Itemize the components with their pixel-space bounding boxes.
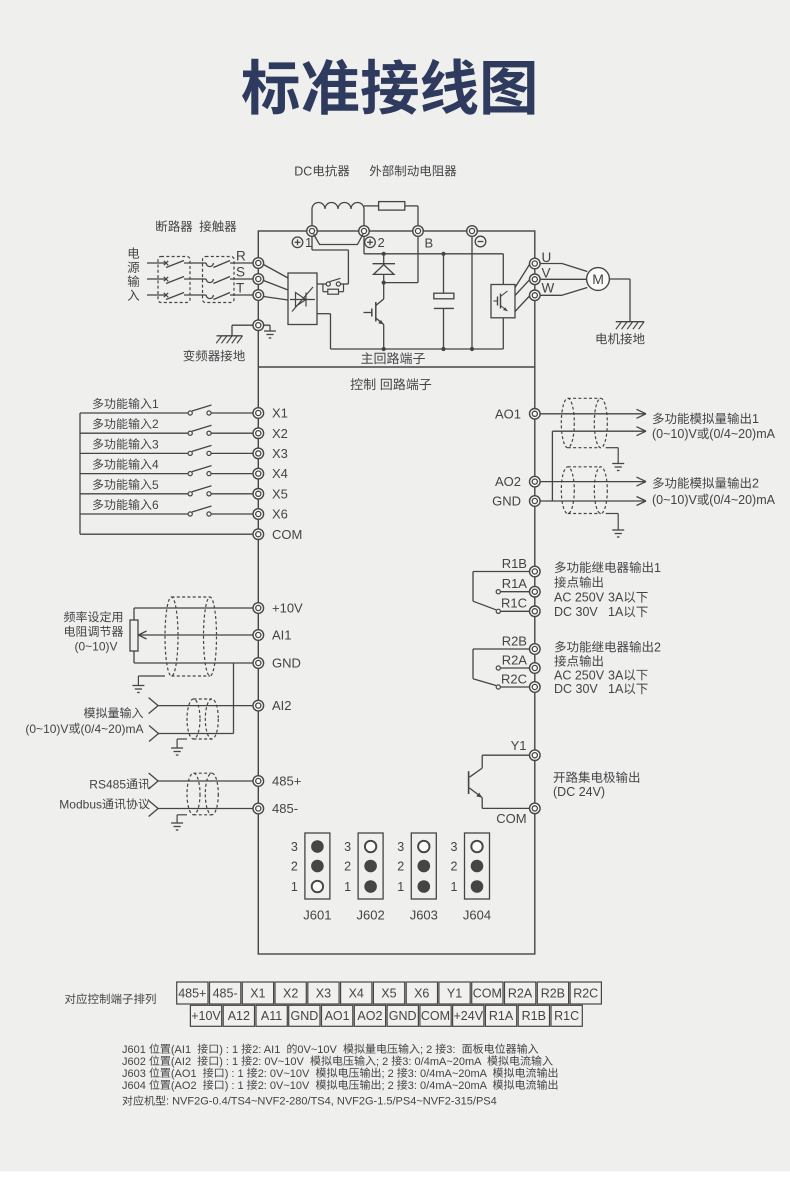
label 频率设定用 电阻调节器 (0~10)V [64, 611, 123, 653]
terminal 485- [253, 803, 264, 814]
svg-text:X5: X5 [381, 986, 396, 1000]
label GND [272, 656, 301, 671]
svg-text:R1B: R1B [502, 556, 527, 571]
node bus junctions [382, 347, 475, 351]
label 多功能输入1 [93, 397, 159, 411]
terminal COM [253, 529, 264, 540]
terminal R1A [530, 586, 541, 597]
svg-text:6: 6 [152, 498, 159, 512]
terminal X3 [253, 448, 264, 459]
svg-text:R1A: R1A [502, 576, 528, 591]
ground shield analog-set [132, 676, 165, 693]
label 多功能输入3 [93, 437, 159, 451]
jumper J601 [291, 833, 332, 923]
svg-text:) : 1: ) : 1 [219, 1056, 238, 1068]
svg-text:J601: J601 [122, 1044, 146, 1056]
terminal X4 [253, 468, 264, 479]
svg-text:1A: 1A [608, 682, 624, 696]
svg-text:3: 3 [397, 840, 404, 854]
label 多功能输入6 [93, 498, 159, 512]
svg-text:2: 2 [344, 859, 351, 873]
terminal X1 [253, 408, 264, 419]
svg-text:X4: X4 [349, 986, 364, 1000]
label AI1 [272, 628, 292, 643]
capacitor DC bus [434, 254, 454, 349]
svg-text:) : 1: ) : 1 [225, 1068, 244, 1080]
wire - drop [471, 236, 473, 349]
svg-text:X2: X2 [283, 986, 298, 1000]
svg-text:2: AI1: 2: AI1 [252, 1044, 280, 1056]
terminal R [253, 258, 264, 269]
terminal R1C [530, 606, 541, 617]
label B [425, 236, 434, 251]
svg-text:(AI2: (AI2 [171, 1056, 191, 1068]
wire +10V row [134, 607, 253, 609]
svg-text:COM: COM [421, 1009, 450, 1023]
svg-text:A11: A11 [261, 1009, 282, 1023]
ground motor hatched [616, 322, 644, 330]
wire input row X6 [80, 513, 253, 515]
terminal +1 (DC bus) [307, 226, 318, 237]
svg-text:X3: X3 [272, 446, 288, 461]
svg-text:2: 2 [451, 859, 458, 873]
wire input phase R [147, 262, 253, 264]
label GND [492, 494, 521, 509]
label W [542, 281, 555, 296]
label R1A [502, 576, 528, 591]
note line 2 [122, 1055, 553, 1067]
svg-text:Modbus: Modbus [59, 797, 102, 811]
svg-text:AO1: AO1 [495, 406, 521, 421]
wire B drop [384, 236, 418, 283]
svg-text:1: 1 [654, 561, 661, 575]
svg-text:AC 250V: AC 250V [554, 668, 605, 682]
terminal AO1 [530, 409, 541, 420]
svg-text:AC 250V: AC 250V [554, 591, 605, 605]
switch X3 [188, 445, 211, 455]
svg-text:U: U [542, 250, 552, 265]
shield RS485 cable [187, 773, 218, 815]
terminal V [530, 274, 541, 285]
svg-text:(0/4~20)mA: (0/4~20)mA [709, 427, 775, 441]
terminal X6 [253, 509, 264, 520]
svg-text:(0/4~20)mA: (0/4~20)mA [81, 722, 144, 736]
label R1B [502, 556, 527, 571]
svg-text:AI1: AI1 [272, 628, 292, 643]
table terminal row 1 [177, 982, 602, 1004]
wire AO2 out [540, 477, 646, 486]
label 主回路端子 [361, 352, 425, 364]
label 变频器接地 [183, 350, 244, 362]
label AI2 [272, 698, 292, 713]
terminal AO2 [530, 476, 541, 487]
breaker pole R [164, 261, 184, 268]
wire reactor risers [312, 209, 364, 227]
terminal 485+ [253, 776, 264, 787]
wire input row X2 [80, 432, 253, 434]
svg-text:; 2: ; 2 [382, 1080, 394, 1092]
label X6 [272, 507, 288, 522]
svg-text:DC: DC [294, 164, 312, 178]
svg-text:2: 0V~10V: 2: 0V~10V [258, 1068, 310, 1080]
wire multi-input bus [79, 413, 81, 534]
svg-text:J601: J601 [303, 908, 331, 923]
label 控制 回路端子 [351, 378, 432, 390]
transistor inverter IGBT module [491, 285, 515, 318]
svg-text:1: 1 [752, 412, 759, 426]
contactor pole R [206, 261, 230, 268]
resistor braking (external) [379, 202, 405, 211]
svg-text:R2A: R2A [508, 986, 533, 1000]
terminal +2 (DC bus) [359, 226, 370, 237]
wire +2 drop and DC+ bus [364, 236, 503, 285]
svg-text:W: W [542, 281, 555, 296]
svg-text:(0~10)V: (0~10)V [75, 639, 118, 653]
label ⊕1 [292, 235, 312, 250]
wire AI2 return to GND [149, 663, 234, 742]
label 多功能输入4 [93, 458, 159, 472]
svg-text:3: 0/4mA~20mA: 3: 0/4mA~20mA [408, 1068, 488, 1080]
svg-text:S: S [236, 264, 245, 279]
label 多功能继电器输出2 block [554, 640, 661, 696]
wire rectifier bottom to bus [317, 314, 331, 349]
terminal AI1 [253, 630, 264, 641]
wire AI2 row [149, 698, 253, 714]
main/control divider line [258, 366, 535, 368]
label 多功能输入2 [93, 417, 159, 431]
label X2 [272, 426, 288, 441]
label 电机接地 [597, 333, 645, 345]
svg-text:0V~10V: 0V~10V [297, 1044, 337, 1056]
svg-text:X1: X1 [250, 986, 265, 1000]
shield AI2 cable [187, 699, 218, 739]
svg-text:X5: X5 [272, 486, 288, 501]
svg-text:3: 3 [344, 840, 351, 854]
svg-text:J602: J602 [357, 908, 385, 923]
note line 4 [122, 1079, 557, 1091]
label 接触器 [200, 220, 237, 232]
ground inverter hatched [216, 336, 242, 344]
svg-text:+24V: +24V [454, 1009, 484, 1023]
jumper J602 [344, 833, 385, 923]
label 485+ [272, 774, 301, 789]
svg-text:J604: J604 [122, 1080, 146, 1092]
wire relay R1B common [473, 572, 530, 610]
wire +1 +2 jumper link [314, 234, 364, 245]
label 外部制动电阻器 [370, 165, 457, 177]
wire AO1 out [540, 409, 646, 418]
terminal - (DC bus) [467, 226, 478, 237]
svg-text:1A: 1A [608, 605, 624, 619]
svg-text:(0~10)V: (0~10)V [25, 722, 68, 736]
svg-text:R1A: R1A [489, 1009, 514, 1023]
svg-text:GND: GND [492, 494, 521, 509]
svg-text:(AO1: (AO1 [171, 1068, 197, 1080]
label COM [272, 527, 302, 542]
wire inverter outputs [515, 265, 530, 312]
svg-text:X1: X1 [272, 406, 288, 421]
label R2A [502, 652, 528, 667]
node diode-top junction [382, 252, 386, 256]
note line 5 [122, 1095, 496, 1107]
label RS485通讯 [89, 777, 149, 791]
svg-text:2: 2 [152, 417, 159, 431]
shield AO2 cable [561, 467, 607, 514]
svg-text:2: 2 [397, 859, 404, 873]
svg-text:; 2: ; 2 [376, 1056, 388, 1068]
label DC电抗器 [294, 164, 349, 178]
terminal AI2 [253, 700, 264, 711]
transistor Y1 open-collector [469, 755, 530, 808]
svg-text:485+: 485+ [272, 774, 301, 789]
label (0~10)V或(0/4~20)mA [652, 493, 776, 507]
wire input row X4 [80, 473, 253, 475]
label AO2 [495, 474, 521, 489]
svg-text:2: 2 [654, 640, 661, 654]
potentiometer frequency-set [130, 608, 138, 663]
svg-text:1: 1 [291, 880, 298, 894]
label V [542, 266, 551, 281]
inverter enclosure box [258, 231, 535, 954]
svg-text:+10V: +10V [272, 601, 303, 616]
table terminal row 2 [190, 1005, 582, 1026]
wire U to motor [540, 264, 587, 272]
svg-text:R2B: R2B [541, 986, 565, 1000]
label ⊕2 [365, 235, 385, 250]
terminal PE [253, 320, 264, 331]
note line 3 [122, 1067, 557, 1079]
label (0~10)V或(0/4~20)mA [25, 722, 143, 736]
svg-text:(0~10)V: (0~10)V [652, 493, 697, 507]
svg-text:X6: X6 [272, 507, 288, 522]
label 电源输入 (vertical) [128, 247, 140, 300]
label X5 [272, 486, 288, 501]
terminal X5 [253, 489, 264, 500]
bottom white strip [0, 1172, 790, 1177]
breaker pole T [164, 293, 184, 300]
wire contact to +1 branch [341, 283, 349, 285]
label COM [496, 811, 526, 826]
svg-text:T: T [236, 280, 244, 295]
wire W to motor [540, 288, 587, 296]
wire motor to ground [609, 279, 630, 322]
terminal R2B [530, 644, 541, 655]
svg-text:3:: 3: [446, 1044, 455, 1056]
label R1C [501, 596, 527, 611]
ground shield AO2 [606, 514, 625, 538]
title 标准接线图 [242, 59, 534, 115]
svg-text:J602: J602 [122, 1056, 146, 1068]
ground shield RS485 [171, 815, 187, 830]
label 模拟量输入 [84, 707, 143, 718]
label R [236, 248, 246, 263]
label X1 [272, 406, 288, 421]
svg-text:(0~10)V: (0~10)V [652, 427, 697, 441]
svg-text:3: 3 [152, 437, 159, 451]
jumper J603 [397, 833, 438, 923]
terminal GND (analog out) [530, 496, 541, 507]
svg-text:2: 2 [752, 477, 759, 491]
svg-text:1: 1 [305, 235, 312, 250]
svg-text:R1C: R1C [501, 596, 527, 611]
svg-text:+10V: +10V [191, 1009, 221, 1023]
svg-text:4: 4 [152, 458, 159, 472]
wire R S T to rectifier [264, 265, 289, 301]
rectifier bridge [288, 273, 317, 325]
terminal X2 [253, 428, 264, 439]
label 多功能继电器输出1 block [554, 561, 661, 619]
contactor pole T [206, 293, 230, 300]
relay contact R2A [496, 666, 529, 670]
terminal R2A [530, 663, 541, 674]
wire AO1 return [552, 427, 646, 501]
svg-text:GND: GND [389, 1009, 417, 1023]
switch X1 [188, 405, 211, 415]
svg-text:R2C: R2C [501, 671, 527, 686]
label ⊖ [475, 236, 486, 247]
svg-text:1: 1 [344, 880, 351, 894]
svg-text:(DC 24V): (DC 24V) [553, 785, 605, 799]
wire input row X5 [80, 493, 253, 495]
svg-text:DC 30V: DC 30V [554, 605, 598, 619]
svg-text:COM: COM [473, 986, 502, 1000]
svg-text:J603: J603 [122, 1068, 146, 1080]
terminal S [253, 274, 264, 285]
svg-text:2: 2 [378, 235, 385, 250]
terminal Y1 [530, 750, 541, 761]
svg-text:B: B [425, 236, 434, 251]
ground PE symbol [264, 331, 276, 338]
breaker pole S [164, 277, 184, 284]
svg-text:(AO2: (AO2 [171, 1080, 197, 1092]
shield analog-set cable [165, 597, 217, 676]
svg-text:R2C: R2C [573, 986, 598, 1000]
label 断路器 [156, 220, 192, 232]
label 多功能模拟量输出2 [653, 477, 759, 491]
label X4 [272, 466, 288, 481]
svg-text:A12: A12 [228, 1009, 250, 1023]
label Y1 [511, 738, 527, 753]
svg-text:R: R [236, 248, 246, 263]
svg-text:2: 0V~10V: 2: 0V~10V [252, 1056, 304, 1068]
svg-text:J604: J604 [463, 908, 491, 923]
jumper J604 [451, 833, 492, 923]
wire +1 to precharge contact [312, 236, 348, 284]
svg-text:AI2: AI2 [272, 698, 292, 713]
terminal T [253, 290, 264, 301]
label 多功能输入5 [93, 478, 159, 492]
wire input phase S [147, 278, 253, 280]
label R2C [501, 671, 527, 686]
terminal B (brake) [413, 226, 424, 237]
transistor brake IGBT [364, 283, 384, 349]
terminal GND [253, 658, 264, 669]
svg-text:M: M [592, 271, 604, 287]
label R2B [502, 633, 527, 648]
svg-text:AO1: AO1 [325, 1009, 350, 1023]
svg-text:GND: GND [291, 1009, 319, 1023]
svg-text:X3: X3 [316, 986, 331, 1000]
label +10V [272, 601, 303, 616]
svg-text:3: 3 [291, 840, 298, 854]
svg-text:3: 0/4mA~20mA: 3: 0/4mA~20mA [402, 1056, 482, 1068]
svg-text:(0/4~20)mA: (0/4~20)mA [709, 493, 775, 507]
wire AI1 row with wiper arrow [139, 631, 254, 639]
label Modbus通讯协议 [59, 797, 149, 811]
svg-text:COM: COM [496, 811, 526, 826]
svg-text:GND: GND [272, 656, 301, 671]
label T [236, 280, 244, 295]
wire V to motor [540, 278, 586, 280]
svg-text:R1B: R1B [522, 1009, 546, 1023]
terminal R1B [530, 566, 541, 577]
terminal W [530, 290, 541, 301]
wire GND out [540, 497, 646, 506]
terminal COM (24V) [530, 803, 541, 814]
switch X2 [188, 425, 211, 435]
relay contact R1C [496, 609, 529, 613]
svg-text:X2: X2 [272, 426, 288, 441]
svg-text:; 2: ; 2 [420, 1044, 432, 1056]
svg-text:1: 1 [451, 880, 458, 894]
svg-text:2: 2 [291, 859, 298, 873]
wire PE terminal to grounds [232, 325, 270, 336]
svg-text:: NVF2G-0.4/TS4~NVF2-280/TS4,: : NVF2G-0.4/TS4~NVF2-280/TS4, NVF2G-1.5/… [166, 1096, 497, 1108]
shield AO1 cable [561, 398, 607, 447]
label S [236, 264, 245, 279]
switch X6 [188, 506, 211, 516]
wire input phase T [147, 294, 253, 296]
svg-text:Y1: Y1 [447, 986, 462, 1000]
svg-text:3: 3 [451, 840, 458, 854]
relay contact R2C [496, 685, 529, 689]
svg-text:X6: X6 [414, 986, 429, 1000]
svg-text:485-: 485- [213, 986, 238, 1000]
label 开路集电极输出 [554, 771, 640, 783]
node brake junction [382, 281, 386, 285]
wire COM row [80, 533, 253, 535]
svg-text:R2B: R2B [502, 633, 527, 648]
label (0~10)V或(0/4~20)mA [652, 427, 776, 441]
contactor dashed box [203, 257, 235, 303]
inductor DC reactor [312, 203, 364, 210]
terminal U [530, 258, 541, 269]
wire input row X3 [80, 452, 253, 454]
svg-text:3A: 3A [608, 668, 624, 682]
svg-text:V: V [542, 266, 551, 281]
label 485- [272, 801, 298, 816]
switch X4 [188, 466, 211, 476]
resistor precharge bypass [323, 284, 344, 294]
terminal +10V [253, 603, 264, 614]
svg-text:AO2: AO2 [495, 474, 521, 489]
svg-text:2: 0V~10V: 2: 0V~10V [258, 1080, 310, 1092]
svg-text:3: 0/4mA~20mA: 3: 0/4mA~20mA [408, 1080, 488, 1092]
svg-text:R1C: R1C [554, 1009, 579, 1023]
node capacitor-top junction [441, 252, 445, 256]
label (DC 24V) [553, 785, 605, 799]
svg-text:(AI1: (AI1 [171, 1044, 191, 1056]
wire rectifier to contact [317, 283, 326, 285]
wire 485+ row [149, 773, 253, 789]
svg-text:X4: X4 [272, 466, 288, 481]
wire input row X1 [80, 412, 253, 414]
svg-text:RS485: RS485 [89, 777, 126, 791]
switch X5 [188, 486, 211, 496]
svg-text:485-: 485- [272, 801, 298, 816]
contactor pole S [206, 277, 230, 284]
relay contact R1A [496, 590, 529, 594]
